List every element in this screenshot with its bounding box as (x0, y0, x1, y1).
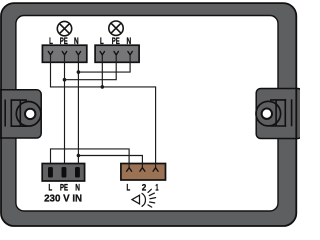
right lug keyhole bracket (270, 99, 292, 127)
switch labels: L 2 1 (127, 181, 159, 192)
svg-text:N: N (75, 181, 80, 192)
right lug keyhole head (256, 101, 281, 126)
svg-text:PE: PE (60, 181, 68, 192)
wires (51, 55, 156, 166)
switch terminal block (brown) (121, 164, 166, 181)
terminal labels left lamp: L PE N (49, 35, 79, 46)
switch pictogram (illuminated switch symbol) (132, 189, 156, 207)
wire: N tap right to switch terminal 2 (78, 156, 142, 167)
wire stub into switch L (128, 164, 130, 168)
lamp symbol (right luminaire) (109, 21, 123, 35)
supply block slot PE (62, 167, 67, 178)
frame edge over left lug (0, 89, 2, 139)
svg-text:230 V IN: 230 V IN (44, 194, 82, 205)
junction node: N to right lamp N (77, 70, 81, 74)
supply block slot L (48, 167, 53, 178)
supply terminal block 230V IN (42, 164, 84, 182)
left lamp terminal block (42, 45, 86, 62)
left block clamp contacts (48, 52, 80, 55)
supply block slot N (75, 167, 80, 178)
enclosure inner opening (16, 16, 278, 212)
lamp symbol (left luminaire) (57, 21, 71, 35)
left lug keyhole bracket (5, 99, 27, 127)
wire: supply L up and right to switch L (51, 149, 130, 166)
svg-text:L: L (127, 181, 131, 192)
right lug screw hole (262, 109, 272, 119)
wire: left lamp L down then right (switched feed line) (51, 55, 156, 166)
frame edge over right lug (295, 88, 297, 140)
right mounting lug (256, 89, 302, 139)
left mounting lug (0, 90, 41, 138)
junction node: right lamp L on feed line (101, 85, 105, 89)
svg-text:2: 2 (142, 181, 147, 192)
wire stub into switch 2 (141, 164, 143, 168)
wire stub into switch 1 (155, 164, 157, 168)
terminal labels right lamp: L PE N (100, 35, 131, 46)
wire: right lamp N down then left to N junction (78, 55, 130, 72)
switch block clamp contacts (127, 168, 159, 172)
supply labels: L PE N (48, 181, 80, 192)
wire: left lamp PE down to supply PE (64, 55, 66, 166)
junction node: PE to right lamp PE (63, 78, 67, 82)
wire: right lamp L down to junction (101, 55, 103, 87)
svg-text:1: 1 (155, 181, 158, 192)
left lug keyhole head (16, 102, 41, 127)
right block clamp contacts (100, 52, 132, 55)
wire: left lamp N down to supply N (77, 55, 79, 166)
svg-text:L: L (48, 181, 52, 192)
wire: right lamp PE down then left to PE junction (65, 55, 117, 80)
right lamp terminal block (95, 45, 139, 62)
left lug screw hole (25, 109, 35, 119)
junction node: N tap to switch (77, 154, 81, 158)
